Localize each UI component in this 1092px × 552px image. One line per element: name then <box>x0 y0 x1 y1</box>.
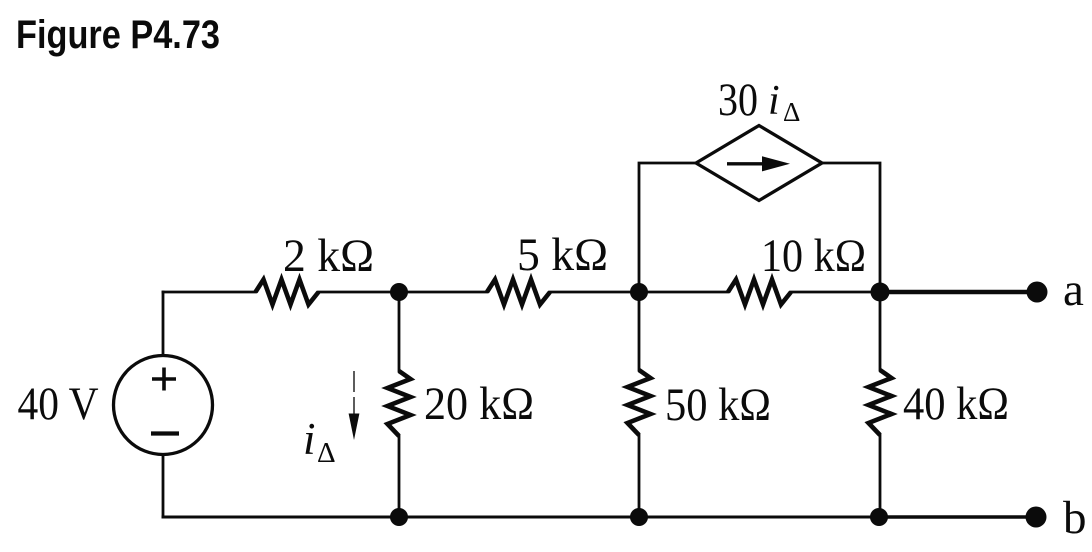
current annotation arrow for i-delta (downward) <box>349 371 360 440</box>
svg-text:40 V: 40 V <box>18 378 99 430</box>
svg-text:40 kΩ: 40 kΩ <box>903 378 1009 430</box>
resistor 20 kOhm (vertical zigzag) <box>388 371 411 436</box>
svg-text:2 kΩ: 2 kΩ <box>283 230 374 282</box>
resistor 40 kOhm (vertical zigzag) <box>869 370 892 435</box>
resistor 5 kOhm (horizontal zigzag) <box>487 280 550 305</box>
wire: left rail upper (top rail down to source + terminal) <box>162 292 165 356</box>
node dot: node 2 bottom <box>630 508 648 526</box>
wire: column 2 upper (node 2 to 50k resistor) <box>638 292 641 370</box>
node dot: node 1 top (after 2k) <box>390 283 408 301</box>
svg-text:i: i <box>768 78 780 124</box>
voltage source V1 40 V (independent source circle) <box>114 356 213 455</box>
wire: left rail lower (source - terminal down to bottom rail) <box>162 455 165 518</box>
wire: column 3 riser (dependent source right lead down to node 3) <box>822 163 880 292</box>
svg-text:5 kΩ: 5 kΩ <box>517 229 608 281</box>
wire: bottom rail <box>163 516 879 519</box>
svg-text:Δ: Δ <box>783 97 800 127</box>
svg-text:Δ: Δ <box>317 437 336 469</box>
resistor 10 kOhm (horizontal zigzag) <box>728 280 791 305</box>
terminal b dot <box>1026 507 1047 528</box>
dependent source arrow (points right) <box>727 156 790 171</box>
wire: top rail between 5k resistor and 10k resistor <box>550 291 728 294</box>
svg-text:50 kΩ: 50 kΩ <box>665 379 771 431</box>
svg-text:30: 30 <box>718 74 758 126</box>
node dot: node 3 bottom <box>870 508 888 526</box>
svg-text:b: b <box>1063 492 1087 544</box>
node dot: node 3 top (after 10k) <box>871 283 890 302</box>
node dot: node 1 bottom <box>390 508 408 526</box>
resistor 2 kOhm (horizontal zigzag) <box>256 280 319 305</box>
wire: column 2 riser (node 2 up to dependent source level) <box>639 163 696 292</box>
wire: bottom rail right segment to terminal b <box>879 515 1035 519</box>
node dot: node 2 top (after 5k) <box>630 283 648 301</box>
voltage source plus sign <box>152 368 176 391</box>
wire: column 1 lower (20k resistor to bottom rail) <box>398 436 401 517</box>
wire: top rail, left segment (source top corner to 2k resistor) <box>163 291 256 294</box>
svg-text:i: i <box>303 414 316 464</box>
svg-text:20 kΩ: 20 kΩ <box>424 378 534 430</box>
wire: top rail between 2k resistor and 5k resistor <box>319 291 488 294</box>
wire: top rail between 10k resistor and node 3 <box>791 291 880 294</box>
dependent current source diamond (30 i-delta) <box>696 126 822 201</box>
svg-text:a: a <box>1063 264 1084 316</box>
wire: column 2 lower (50k resistor to bottom rail) <box>638 435 641 517</box>
wire: column 3 lower (40k resistor to bottom rail) <box>879 435 882 517</box>
svg-text:10 kΩ: 10 kΩ <box>761 230 866 282</box>
terminal a dot <box>1027 282 1048 303</box>
wire: column 1 upper (node 1 to 20k resistor) <box>398 292 401 371</box>
voltage source minus sign <box>151 431 179 435</box>
wire: column 3 upper (node 3 to 40k resistor) <box>879 292 882 370</box>
wire: node 3 to terminal a (thick lead) <box>880 290 1035 294</box>
resistor 50 kOhm (vertical zigzag) <box>628 370 651 435</box>
svg-text:Figure P4.73: Figure P4.73 <box>16 13 220 57</box>
